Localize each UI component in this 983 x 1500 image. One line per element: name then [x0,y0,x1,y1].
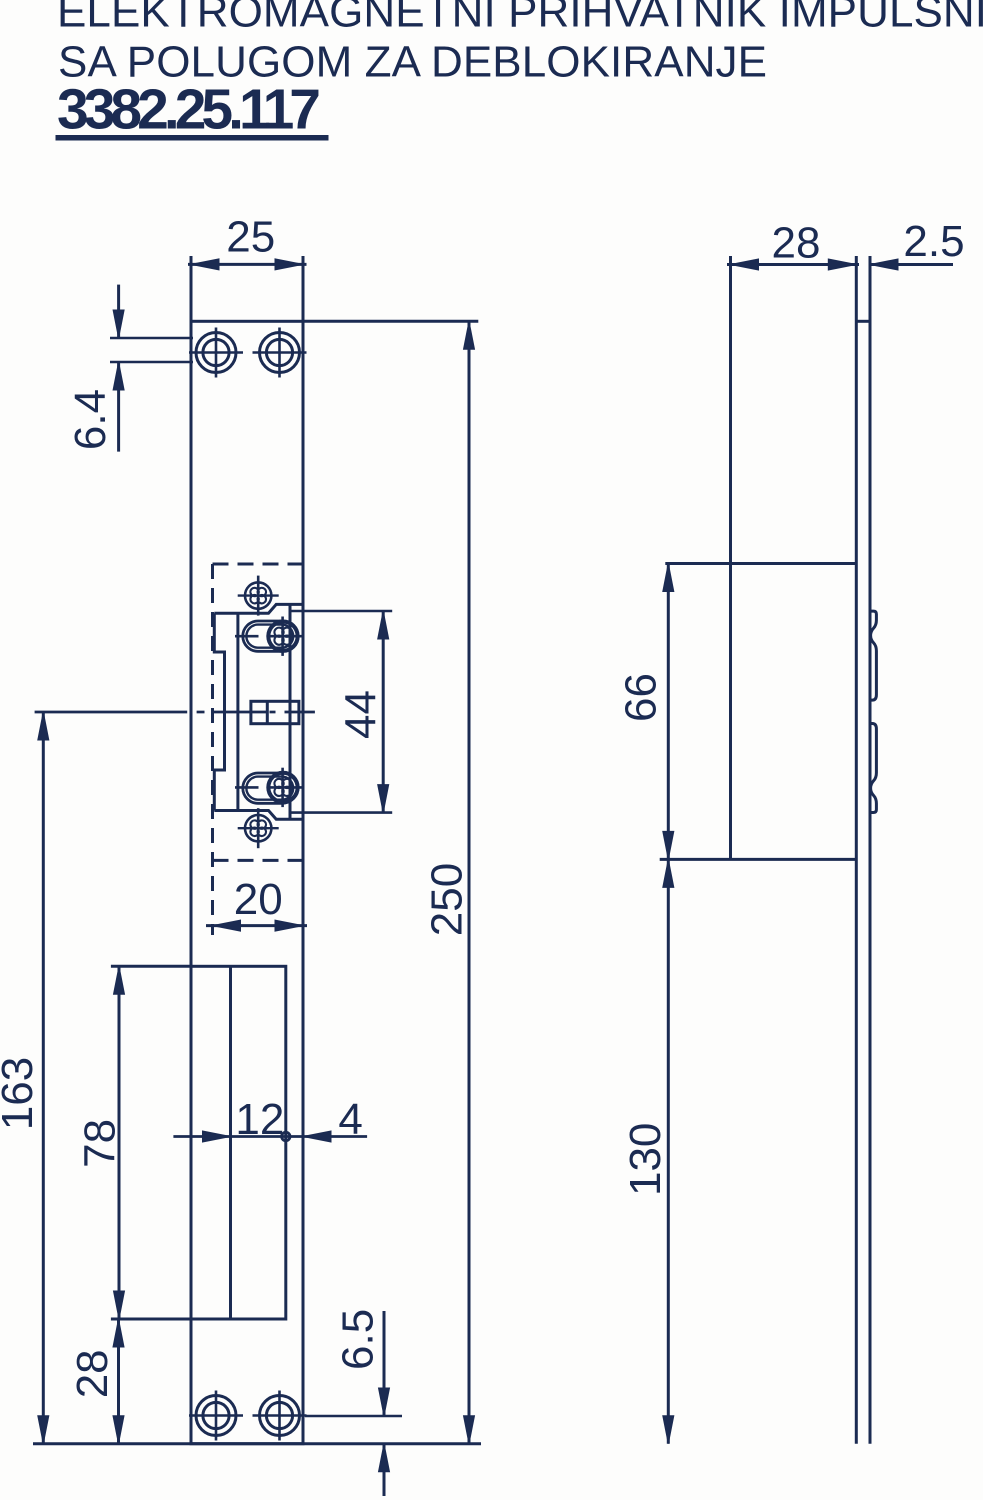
svg-text:6.5: 6.5 [334,1309,383,1370]
side faceplate back line [869,256,872,1444]
mounting hole top 2 [253,328,307,378]
dim 12 end circle [282,1132,290,1140]
dim 6.4 stem upper [117,285,120,338]
adjustment slot top [235,617,304,656]
dim 6.4 arrow lower [113,362,124,390]
dim 44 extension top [290,610,392,613]
svg-text:6.4: 6.4 [66,389,115,450]
release lever profile [214,613,224,810]
svg-text:28: 28 [772,219,821,268]
spring clip lower [870,724,876,813]
dim 12 arrow [203,1131,231,1142]
svg-text:78: 78 [76,1119,125,1168]
side dim 28 arrow right [828,259,856,270]
dim 6.5 extension [305,1415,402,1418]
svg-text:20: 20 [234,875,283,924]
dim 25 extension line left [190,256,193,321]
side body top edge [665,562,856,565]
dim 28 arrow top [113,1319,124,1347]
dim 44 line [382,611,385,813]
svg-text:12: 12 [235,1095,284,1144]
bottom edge extension line [33,1442,481,1445]
dim 12 line [173,1135,303,1138]
dim 6.4 extension line lower [110,361,193,364]
dim 25 line [188,263,307,266]
mounting hole bottom 1 [189,1391,243,1441]
dim 25 extension line right [302,256,305,321]
svg-text:ELEKTROMAGNETNI PRIHVATNIK IMP: ELEKTROMAGNETNI PRIHVATNIK IMPULSNI [57,0,983,37]
dim 66 arrow bottom [663,831,674,859]
dim 20 arrow left [213,920,241,931]
dim 28 arrow bottom [113,1416,124,1444]
part number underline [56,136,328,141]
svg-text:25: 25 [226,213,275,262]
dim 28 line [117,1319,120,1444]
dim 2.5 arrow [870,259,898,270]
side dim 28 arrow left [731,259,759,270]
keeper screw top [238,576,279,616]
svg-text:28: 28 [68,1349,117,1398]
dim 44 extension bottom [290,811,392,814]
dim 250 line [468,321,471,1443]
dim 44 arrow bottom [378,785,389,813]
mounting hole top 1 [189,328,243,378]
strike pocket outline [191,966,286,1319]
plate top edge extension [303,320,478,323]
dim 6.5 stem lower [383,1444,386,1496]
dim 44 arrow top [378,611,389,639]
dashed cutout left [211,564,214,935]
dim 6.4 stem lower [117,362,120,452]
dim 2.5 line [870,263,953,266]
dim 163 arrow bottom [38,1416,49,1444]
dim 66 line [667,564,670,860]
keeper bottom edge with tab [214,811,304,820]
dim 78 line [118,966,121,1319]
keeper top edge with tab [214,604,304,613]
dim 130 arrow bottom [663,1416,674,1444]
side faceplate top tick [856,320,870,323]
side dim 28 line [727,263,859,266]
pocket top extension [111,965,191,968]
side body bottom edge [660,858,857,861]
dim 25 arrow left [191,259,219,270]
dim 4 line [303,1135,367,1138]
dim 20 line [206,924,307,927]
svg-text:2.5: 2.5 [903,217,964,266]
svg-text:130: 130 [621,1123,670,1196]
front faceplate outline [191,321,303,1443]
dashed cutout top [213,563,304,566]
side faceplate front line [855,256,858,1444]
keeper left edge [236,613,239,810]
svg-text:163: 163 [0,1057,42,1130]
dim 78 arrow top [114,966,125,994]
dim 163 arrow top [38,712,49,740]
dim 20 arrow right [275,920,303,931]
dim 6.5 arrow lower [379,1444,390,1472]
horizontal centerline [35,711,315,714]
spring clip upper [870,611,876,700]
side body left edge [729,256,732,859]
dim 6.5 arrow upper [379,1388,390,1416]
dim 250 arrow bottom [464,1416,475,1444]
dim 6.4 arrow upper [113,310,124,338]
svg-text:4: 4 [338,1095,362,1144]
dim 130 line [667,859,670,1443]
latch bolt [251,701,299,723]
dim 130 arrow top [663,859,674,887]
dim 163 line [42,712,45,1444]
dim 66 arrow top [663,564,674,592]
dim 250 arrow top [464,321,475,349]
strike pocket inner line [229,966,232,1319]
dim 6.4 extension line upper [110,337,193,340]
mounting hole bottom 2 [253,1391,307,1441]
pocket bottom extension [111,1318,191,1321]
keeper screw bottom [238,808,279,848]
keeper right edge [289,603,292,820]
svg-text:250: 250 [423,863,472,936]
dim 4 arrow [303,1131,331,1142]
dim 78 arrow bottom [114,1291,125,1319]
dim 25 arrow right [275,259,303,270]
svg-text:3382.25.117: 3382.25.117 [57,78,321,142]
svg-text:66: 66 [617,673,666,722]
dim 6.5 stem upper [383,1311,386,1416]
adjustment slot bottom [235,768,304,807]
dashed cutout bottom [213,859,304,862]
svg-text:44: 44 [337,690,386,739]
